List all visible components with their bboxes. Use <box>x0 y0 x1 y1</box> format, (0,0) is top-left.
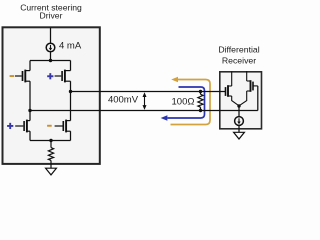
node: R1 bottom junction <box>199 109 202 112</box>
current source I2 (receiver) <box>235 117 244 133</box>
resistor R1 (100 ohm termination) <box>198 92 203 111</box>
ground (receiver) <box>234 132 245 139</box>
transistor M4 (lower-right) <box>55 120 71 133</box>
transistor M2 (upper-right) <box>55 70 71 83</box>
node: tail junction <box>49 139 52 142</box>
svg-text:Differential: Differential <box>218 45 259 55</box>
transistor M1 (upper-left) <box>15 70 30 83</box>
node: bottom output junction <box>28 109 31 112</box>
transistor M3 (lower-left) <box>15 120 30 133</box>
transistor M5 (receiver left) <box>226 71 240 105</box>
svg-text:4 mA: 4 mA <box>59 41 82 52</box>
svg-text:Driver: Driver <box>40 11 63 21</box>
driver box <box>3 27 100 164</box>
current loop arrow (orange) <box>171 80 211 125</box>
node: top output junction <box>69 90 72 93</box>
svg-text:100Ω: 100Ω <box>172 96 195 107</box>
node: receiver source junction <box>237 104 240 107</box>
receiver box <box>220 72 262 129</box>
resistor R2 (driver tail) <box>48 141 53 169</box>
wire: driver top rail <box>30 60 71 62</box>
ground (driver) <box>46 168 57 175</box>
current loop arrow (blue) <box>168 87 205 118</box>
label: minus (M1 gate) <box>10 75 15 77</box>
wire: bottom output line (driver to receiver right side) <box>30 110 258 112</box>
wire: receiver right gate riser <box>257 86 259 111</box>
svg-text:Receiver: Receiver <box>222 56 256 66</box>
orange loop arrowhead <box>171 77 178 83</box>
label: driver title "Current steering Driver" <box>20 2 82 20</box>
label: minus (M4 gate) <box>47 125 52 127</box>
current source I1 (4 mA) <box>46 28 55 61</box>
label: receiver title "Differential Receiver" <box>218 45 259 66</box>
node: R1 top junction <box>199 90 202 93</box>
label: plus (M2 gate) <box>47 73 53 79</box>
wire: left verticals <box>29 61 31 141</box>
transistor M6 (receiver right) <box>239 71 258 106</box>
node: rail junction <box>49 59 52 62</box>
wire: top output line (driver to receiver left gate) <box>71 91 226 93</box>
wire: right verticals <box>70 61 72 141</box>
label: plus (M3 gate) <box>7 123 13 129</box>
wire: driver bottom rail <box>30 140 71 142</box>
wire: receiver tail <box>238 106 240 117</box>
400mV measurement arrow <box>143 92 147 110</box>
blue loop arrowhead <box>161 115 168 121</box>
svg-text:400mV: 400mV <box>108 94 139 105</box>
